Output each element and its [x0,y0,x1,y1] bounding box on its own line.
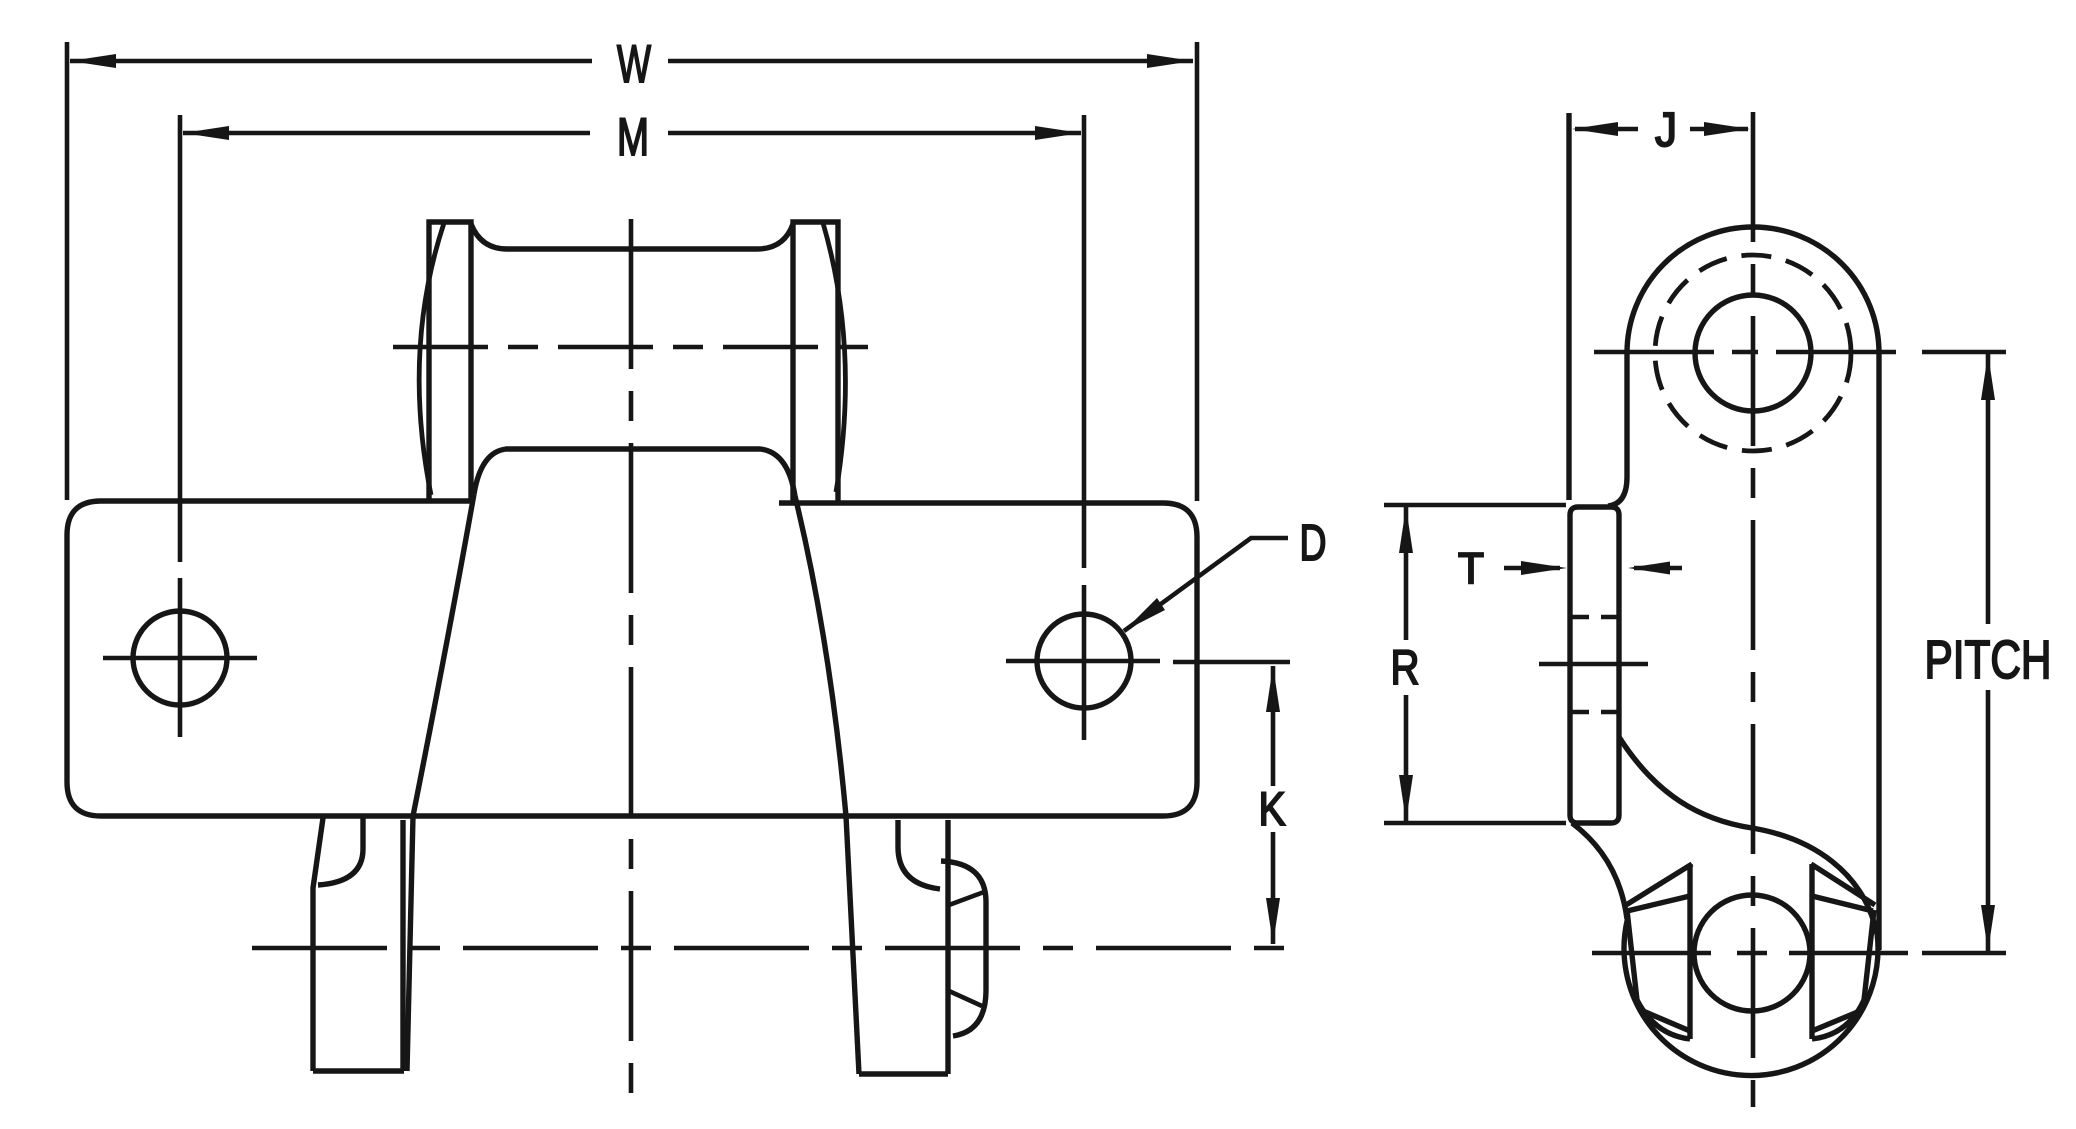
right leg bottom edge [859,1071,948,1076]
right tooth top wedge upper line [1811,864,1875,905]
strip break dashes lower [1570,710,1618,715]
dimension J line [1575,127,1748,132]
barrel right flange end arc [823,223,845,492]
leader D shaft [1124,538,1288,631]
dimension K top extension line [1173,660,1290,665]
barrel centerline [393,345,874,350]
left leg outer edge [313,818,323,1071]
dimension R top arrowhead [1399,507,1413,553]
side view attachment plate strip [1570,507,1619,823]
hole left [133,611,227,705]
dimension M left arrowhead [183,126,229,140]
boss top edge with shoulders [474,449,795,496]
barrel right flange [793,222,838,501]
left tooth top wedge upper line [1626,864,1692,905]
bottom lobe outer arc [1624,919,1878,1076]
top lobe horizontal centerline [1594,350,1911,355]
right leg notch [898,820,940,889]
hole right crosshair vertical [1082,585,1087,740]
pitch top extension line [1922,350,2006,355]
dimension T left arrowhead [1521,561,1567,575]
front view vertical centerline [629,219,634,1093]
ear upper chamfer line [949,892,984,905]
hole right [1037,614,1131,708]
leader D arrowhead [1124,598,1165,631]
hole left crosshair vertical [178,578,183,737]
dimension W right arrowhead [1147,54,1193,68]
svg-text:W: W [617,35,651,94]
dimension R bottom extension line [1384,821,1566,826]
pitch bottom extension line [1922,951,2006,956]
front view attachment plate [67,501,1197,816]
left leg bottom edge [313,1068,404,1073]
dimension PITCH line [1986,354,1991,951]
left tooth bottom wedge line [1643,1011,1690,1031]
right leg ear boss [941,861,986,1036]
side view top lobe outer arc [1627,227,1879,353]
svg-text:J: J [1655,104,1677,157]
dimension T left arrow [1504,566,1560,571]
dimension T right arrowhead [1628,562,1670,575]
svg-text:R: R [1391,641,1420,695]
side view vertical centerline [1751,112,1756,1107]
dimension M right arrowhead [1035,126,1081,140]
strip to bottom lobe transition [1572,823,1627,919]
right tooth bottom wedge arc [1812,1000,1864,1039]
right leg right edge [945,820,950,1074]
dimension K bottom arrowhead [1266,898,1280,944]
svg-text:T: T [1458,544,1484,593]
svg-text:K: K [1259,782,1286,835]
left tooth left edge [1627,910,1637,1000]
left tooth vertical edge [1687,864,1692,1039]
boss left slant edge [413,494,474,816]
dimension K line [1271,666,1276,944]
right tooth vertical edge [1809,864,1814,1039]
left leg boss edge below plate [407,816,413,1071]
dimension J right arrowhead [1704,122,1750,136]
left tooth top wedge lower line [1627,896,1690,911]
dimension J left arrowhead [1572,122,1618,136]
side view right edge line [1876,353,1881,950]
sidebar S-curve [1619,737,1877,934]
dimension M left extension line [178,115,183,562]
dimension R top extension line [1384,503,1566,508]
bottom lobe horizontal centerline [1592,951,1908,956]
boss right slant edge [795,496,846,816]
dimension T right arrow [1634,566,1682,571]
strip crosshair centerline [1539,662,1648,667]
side view top lobe dashed circle [1655,255,1851,451]
svg-text:M: M [617,108,649,167]
dimension R line [1404,507,1409,821]
side view top pin circle [1695,295,1811,411]
side view sidebar left face line [1566,113,1571,500]
left leg inner edge [400,820,405,1071]
svg-text:D: D [1300,514,1327,571]
dimension W left extension line [65,42,70,500]
ear lower chamfer line [949,991,982,1006]
right tooth right edge [1864,910,1874,1000]
dimension M right extension line [1082,115,1087,568]
side view left tangent and curve into plate [1608,353,1627,506]
left tooth bottom wedge arc [1637,1000,1690,1039]
bottom pin circle [1694,895,1810,1011]
dimension K top arrowhead [1266,666,1280,712]
barrel left flange [429,222,471,501]
dimension R bottom arrowhead [1399,775,1413,821]
hole right crosshair horizontal [1006,659,1160,664]
dimension M line [183,131,1081,136]
dimension PITCH bottom arrowhead [1981,905,1995,951]
left leg notch [318,818,363,885]
dimension PITCH top arrowhead [1981,354,1995,400]
barrel body top edge [471,224,793,249]
strip break dashes upper [1570,615,1618,620]
barrel left flange end arc [419,223,444,495]
right leg outer boss edge [846,816,859,1074]
dimension W line [70,59,1193,64]
right tooth top wedge lower line [1812,896,1873,911]
dimension W right extension line [1195,42,1200,501]
right tooth bottom wedge line [1812,1011,1860,1031]
hole left crosshair horizontal [103,656,257,661]
front view lower pin centerline [252,946,1290,951]
svg-text:PITCH: PITCH [1925,630,2052,690]
dimension W left arrowhead [70,54,116,68]
